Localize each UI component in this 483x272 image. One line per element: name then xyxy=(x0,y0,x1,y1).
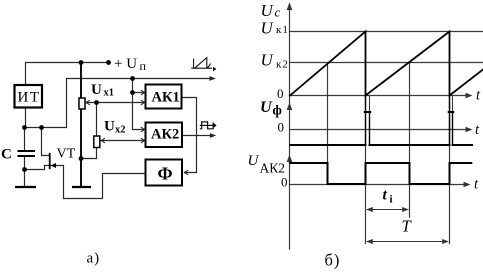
svg-text:х1: х1 xyxy=(104,88,115,99)
svg-text:к2: к2 xyxy=(276,59,289,71)
svg-text:VT: VT xyxy=(57,147,76,162)
svg-text:Ф: Ф xyxy=(158,164,173,184)
svg-text:t: t xyxy=(383,187,388,204)
svg-text:U: U xyxy=(261,51,275,70)
svg-text:0: 0 xyxy=(278,120,285,135)
svg-text:ф: ф xyxy=(273,103,282,118)
svg-text:б): б) xyxy=(325,251,341,270)
svg-text:0: 0 xyxy=(277,86,284,101)
svg-text:i: i xyxy=(390,194,393,206)
svg-text:АК2: АК2 xyxy=(151,127,179,143)
svg-text:t: t xyxy=(476,88,481,104)
svg-text:0: 0 xyxy=(281,175,288,190)
svg-text:C: C xyxy=(1,147,12,163)
svg-text:U: U xyxy=(261,1,275,20)
svg-text:АК1: АК1 xyxy=(152,90,180,106)
svg-text:АК2: АК2 xyxy=(260,161,286,176)
svg-text:t: t xyxy=(474,177,479,193)
svg-text:х2: х2 xyxy=(115,125,126,136)
svg-text:а): а) xyxy=(87,251,101,267)
svg-text:U: U xyxy=(260,99,273,116)
svg-text:п: п xyxy=(140,59,147,73)
svg-text:c: c xyxy=(275,5,281,20)
svg-text:U: U xyxy=(91,82,102,98)
svg-text:U: U xyxy=(248,153,260,169)
svg-text:ИТ: ИТ xyxy=(18,90,41,106)
svg-text:U: U xyxy=(104,119,115,135)
svg-text:+ U: + U xyxy=(114,56,137,72)
svg-text:t: t xyxy=(475,122,480,138)
svg-text:T: T xyxy=(402,217,413,236)
svg-text:к1: к1 xyxy=(276,24,289,36)
svg-text:U: U xyxy=(261,19,275,38)
